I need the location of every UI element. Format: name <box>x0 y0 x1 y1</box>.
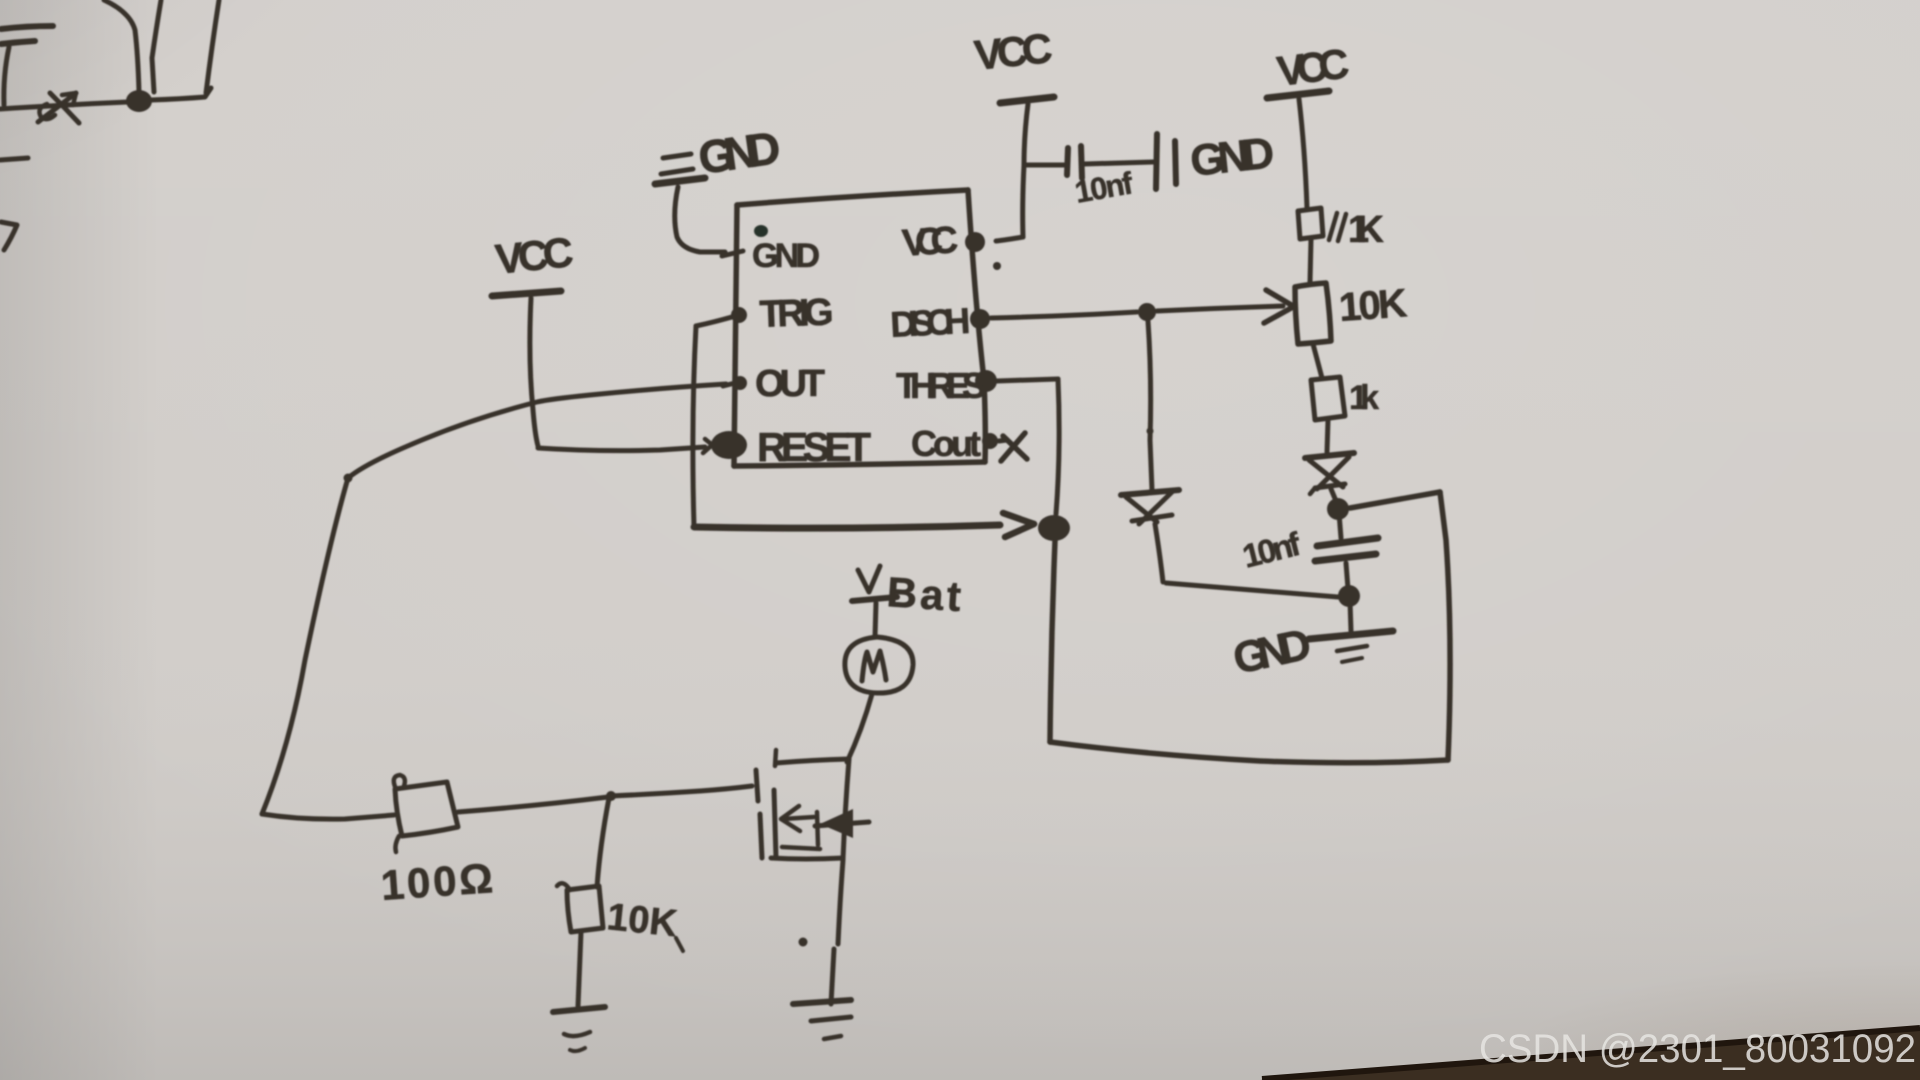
pin 1 indicator dot <box>754 225 768 237</box>
paper edge shadow line <box>1262 1028 1920 1079</box>
wire (top-left horizontal) <box>0 102 128 109</box>
ground (right, below cap) <box>1309 601 1393 662</box>
wire TRIG loop (left side down) <box>693 315 739 527</box>
wire cap to lower node <box>1346 563 1348 589</box>
power VCC (right) symbol <box>1267 91 1329 208</box>
ground (top, '=GND' symbol) <box>655 154 725 252</box>
node (gate/10K junction) <box>606 791 616 801</box>
svg-text:10K: 10K <box>605 896 680 945</box>
transistor Q1 (MOSFET) <box>756 750 869 859</box>
node (bend dot) <box>344 474 353 483</box>
svg-text:THRES: THRES <box>896 365 986 406</box>
wire (vertical from top edge) <box>152 0 161 92</box>
resistor 1K (top right) <box>1298 208 1323 239</box>
wire (junction to right stub) <box>151 88 211 100</box>
svg-text:Bat: Bat <box>885 568 962 620</box>
resistor 10K (gate pulldown) <box>557 883 603 932</box>
wire (second vertical from top edge) <box>206 0 219 93</box>
node (cap bottom junction) <box>1338 585 1360 607</box>
svg-text:VCC: VCC <box>972 24 1054 79</box>
svg-text:100Ω: 100Ω <box>379 854 494 909</box>
ground (below 10K) <box>553 1007 605 1051</box>
wire pot to 1k <box>1313 344 1322 378</box>
node OUT pin <box>733 376 747 390</box>
svg-text:OUT: OUT <box>755 363 825 405</box>
diode D1 (zener, left) <box>1121 490 1179 524</box>
wire DISCH to pot junction <box>991 312 1137 318</box>
pot wiper arrowhead <box>1264 290 1293 323</box>
table surface (bottom-right corner) <box>1260 1027 1920 1080</box>
wire 10K to ground <box>578 932 581 1006</box>
wire (bottom feedback, thick with arrow) <box>694 525 1000 528</box>
wire DISCH junction down to zener D1 <box>1148 321 1152 490</box>
motor M1 (circle) <box>845 637 913 693</box>
wire VCC-left to RESET <box>538 447 705 451</box>
wire junction to cap <box>1339 513 1341 538</box>
capacitor (partial sketch, top-left edge) <box>1 26 53 105</box>
svg-text:VCC: VCC <box>901 219 960 265</box>
wire node to left (to zener D1 anode) <box>1166 583 1338 597</box>
wire motor to MOSFET drain <box>847 694 872 762</box>
node RESET pin (blob) <box>711 431 747 459</box>
node THRES pin <box>975 370 997 392</box>
node (top-left junction) <box>126 90 152 112</box>
node TRIG pin <box>731 307 747 323</box>
label 1K <box>1329 213 1346 241</box>
svg-text:1K: 1K <box>1348 209 1385 251</box>
node DISCH pin <box>970 309 990 329</box>
arrowhead <box>1003 513 1034 524</box>
node (zener/cap junction) <box>1327 498 1349 520</box>
wire THRES to junction <box>997 379 1059 514</box>
op-amp U1 555 timer body <box>734 190 985 466</box>
ink dot below VCC pin <box>993 262 1001 270</box>
svg-text:RESET: RESET <box>757 424 871 470</box>
wire (left edge 7-shape) <box>1 222 17 250</box>
ground (below MOSFET) <box>793 1000 851 1039</box>
svg-text:1k: 1k <box>1349 379 1379 417</box>
wire junction to pot wiper <box>1157 306 1283 311</box>
resistor 10K (potentiometer body) <box>1295 283 1331 344</box>
svg-text:GND: GND <box>1188 128 1277 186</box>
svg-text:CSDN @2301_80031092: CSDN @2301_80031092 <box>1479 1027 1916 1071</box>
svg-text:TRIG: TRIG <box>759 291 834 336</box>
svg-text:GND: GND <box>752 237 820 275</box>
power VCC (top center) symbol <box>996 97 1054 241</box>
power VCC (left) symbol <box>492 291 561 446</box>
wire junction down to 10K <box>597 798 609 887</box>
wire 1K to pot <box>1310 239 1311 283</box>
svg-text:DISCH: DISCH <box>889 300 971 345</box>
X mark (Cout no-connect) <box>1001 433 1027 461</box>
svg-text:10K: 10K <box>1338 281 1409 330</box>
capacitor 10nf (right) <box>1315 538 1378 561</box>
capacitor 10nf (top decoupling) <box>1026 134 1176 189</box>
svg-text:Cout: Cout <box>911 423 981 464</box>
wire gate lead <box>700 786 752 791</box>
svg-text:VCC: VCC <box>493 228 575 283</box>
wire D1 to bottom wire <box>1155 524 1163 582</box>
wire 100ohm to gate junction <box>458 797 608 812</box>
node VCC pin <box>965 232 985 252</box>
wire (big loop: down, bottom, right side up) <box>1050 492 1450 763</box>
power VBat symbol <box>852 566 897 637</box>
node (feedback junction blob) <box>1038 515 1070 541</box>
X mark with arrow (top-left) <box>38 93 79 123</box>
resistor 100ohm <box>394 775 458 852</box>
svg-text:VCC: VCC <box>1274 40 1351 95</box>
label M <box>862 651 886 681</box>
node (DISCH net junction) <box>1138 303 1156 321</box>
resistor 1k <box>1311 377 1345 420</box>
node Cout pin <box>982 433 998 449</box>
ink dot (left of source wire) <box>799 938 808 947</box>
wire MOSFET source down <box>831 860 843 1004</box>
wire OUT to lower-left gate drive <box>262 384 726 819</box>
wire (left edge stub) <box>0 158 28 160</box>
diode D2 (zener, right) <box>1305 453 1354 501</box>
pin GND tick <box>722 251 743 256</box>
wire 1k to zener <box>1327 420 1328 452</box>
wire (curved drop from top edge) <box>104 0 139 92</box>
